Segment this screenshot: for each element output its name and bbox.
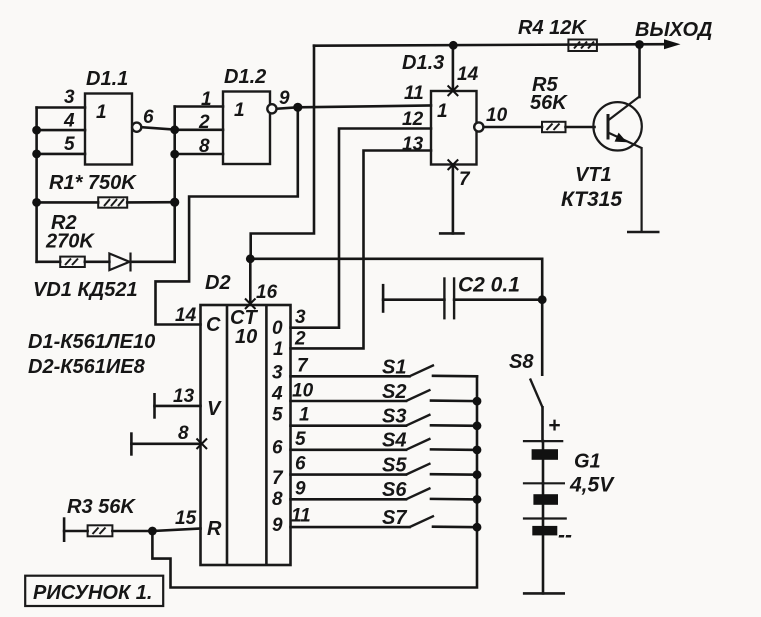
wire C2 left stub <box>383 298 444 301</box>
svg-text:1: 1 <box>273 339 284 360</box>
wire top supply rail to output <box>314 44 666 46</box>
wire VT1 collector to output rail <box>638 45 641 98</box>
node V pin open terminal bar <box>153 394 156 417</box>
svg-text:S2: S2 <box>382 381 406 403</box>
wire vertical from top rail down at x=314 <box>251 46 314 259</box>
svg-text:S5: S5 <box>382 455 407 477</box>
resistor R3 <box>88 525 113 536</box>
junction output rail / pin14 <box>449 41 458 50</box>
battery G1 plate 2 <box>523 482 565 484</box>
svg-text:14: 14 <box>175 305 197 326</box>
svg-text:1: 1 <box>437 101 448 122</box>
node C2 left open terminal bar <box>382 285 385 311</box>
svg-text:4: 4 <box>63 111 75 132</box>
svg-text:1: 1 <box>299 405 310 426</box>
pin 8 entry mark D2 <box>197 439 208 450</box>
junction R pin / R3 <box>148 527 157 536</box>
junction output rail / collector <box>635 40 644 49</box>
svg-text:10: 10 <box>486 105 508 126</box>
svg-text:2: 2 <box>294 329 306 350</box>
svg-text:D1.1: D1.1 <box>86 68 128 90</box>
wire counter out 9 row to S7 <box>291 526 410 529</box>
svg-text:КТ315: КТ315 <box>561 188 622 211</box>
junction D1.1 pin5 <box>32 150 41 159</box>
battery G1 bar 3 <box>532 526 557 536</box>
svg-text:6: 6 <box>295 454 306 475</box>
counter D2 box <box>201 305 291 565</box>
wire pin9 node down to D2 clock (staircase) <box>156 107 298 324</box>
svg-text:R3 56K: R3 56K <box>67 496 136 518</box>
svg-text:D2: D2 <box>205 272 231 294</box>
wire D1.1 inputs left bus <box>35 108 38 262</box>
svg-text:D2-К561ИЕ8: D2-К561ИЕ8 <box>28 356 146 378</box>
diode VD1 <box>109 253 130 272</box>
wire counter out 3 row to S1 <box>291 375 410 378</box>
wire D1.1 pin 5 <box>37 153 85 156</box>
resistor R5 <box>542 122 566 132</box>
svg-text:3: 3 <box>272 363 283 384</box>
svg-text:R1* 750K: R1* 750K <box>49 172 137 194</box>
svg-text:9: 9 <box>295 479 306 500</box>
svg-text:S1: S1 <box>382 357 406 379</box>
wire D1.3 pin 12 from counter out 0 <box>291 129 432 328</box>
junction bus S5 <box>473 470 482 479</box>
wire supply vertical to S8 <box>541 259 544 375</box>
pin 7 entry mark D1.3 <box>448 160 459 171</box>
svg-text:56K: 56K <box>530 92 568 114</box>
switch S2 lever <box>406 390 431 401</box>
svg-text:S3: S3 <box>382 406 406 428</box>
svg-text:6: 6 <box>143 107 154 128</box>
svg-text:5: 5 <box>64 134 75 155</box>
wire C2 right to supply vertical <box>454 298 542 301</box>
svg-text:7: 7 <box>297 356 309 377</box>
wire R1 row <box>37 201 99 204</box>
wire D1.3 output pin 10 to R5 <box>483 126 542 129</box>
wire D1.2 pin 1 <box>175 105 223 108</box>
wire D1.1 output to D1.2 inputs <box>141 127 175 129</box>
wire D1.3 pin 13 from counter out 1 <box>291 151 432 349</box>
wire D2 pin 8 <box>131 442 200 445</box>
wire S4 fixed side <box>431 448 477 451</box>
switch S4 lever <box>406 439 431 450</box>
battery G1 plate + <box>523 440 563 442</box>
svg-text:V: V <box>207 398 222 420</box>
figure caption box <box>25 576 163 606</box>
wire counter out 6 row to S4 <box>291 448 407 451</box>
svg-text:S6: S6 <box>382 479 407 501</box>
svg-text:14: 14 <box>457 64 479 85</box>
junction bus S2 <box>473 397 482 406</box>
wire S5 fixed side <box>431 473 477 476</box>
battery G1 bar 1 <box>532 449 558 460</box>
wire counter out 5 row to S3 <box>291 424 407 427</box>
wire pin9 junction to D1.3 pin 11 <box>298 106 431 108</box>
wire S7 fixed side <box>433 525 477 528</box>
svg-text:7: 7 <box>459 169 471 190</box>
junction bus S3 <box>473 421 482 430</box>
wire S6 fixed side <box>431 498 477 501</box>
resistor R2 <box>60 257 85 267</box>
battery G1 bar 2 <box>533 494 558 505</box>
wire supply down to D2 pin 16 <box>249 259 252 304</box>
svg-text:S4: S4 <box>382 430 406 452</box>
battery G1 plate 3 <box>523 517 567 519</box>
svg-text:C: C <box>206 314 221 336</box>
svg-text:8: 8 <box>178 423 189 444</box>
node pin 8 open terminal bar <box>130 434 133 455</box>
svg-text:9: 9 <box>272 515 283 536</box>
switch S6 lever <box>406 488 431 499</box>
svg-text:9: 9 <box>279 88 290 109</box>
wire S8 to battery plus <box>541 407 544 441</box>
gate D1.2 <box>223 92 277 165</box>
capacitor C2 <box>444 277 454 319</box>
svg-text:10: 10 <box>292 381 314 402</box>
wire battery internal link 4 <box>542 505 545 519</box>
svg-text:16: 16 <box>256 282 278 303</box>
wire D1.2 input bus vertical <box>173 107 176 262</box>
svg-text:C2 0.1: C2 0.1 <box>458 274 520 297</box>
ground VT1 emitter <box>627 231 660 234</box>
svg-text:ВЫХОД: ВЫХОД <box>635 19 712 41</box>
transistor VT1 <box>593 97 641 233</box>
svg-text:5: 5 <box>272 405 283 426</box>
wire R5 to VT1 base <box>566 126 595 129</box>
svg-text:R4 12K: R4 12K <box>518 17 587 39</box>
junction bus S7 <box>473 523 482 532</box>
pin 16 entry mark <box>245 299 256 310</box>
svg-text:270K: 270K <box>45 231 95 253</box>
svg-text:РИСУНОК 1.: РИСУНОК 1. <box>33 582 152 604</box>
junction supply rail / pin16 <box>246 254 255 263</box>
node pin 9 junction <box>293 103 302 112</box>
wire S3 fixed side <box>431 424 477 427</box>
svg-text:1: 1 <box>96 102 107 123</box>
wire D1.2 pin 8 <box>175 153 223 156</box>
svg-text:2: 2 <box>198 112 210 133</box>
svg-text:8: 8 <box>199 136 210 157</box>
junction C2 / S8 supply <box>538 295 547 304</box>
junction R1 left <box>32 198 41 207</box>
output arrowhead <box>664 39 681 49</box>
svg-text:13: 13 <box>173 386 195 407</box>
wire counter out 4 row to S2 <box>291 400 407 403</box>
svg-text:4,5V: 4,5V <box>569 474 615 497</box>
svg-text:13: 13 <box>402 134 424 155</box>
svg-text:S8: S8 <box>509 351 534 373</box>
junction R1 right <box>170 198 179 207</box>
switch S8 lever <box>530 379 543 408</box>
wire D1.1 pin 3 <box>37 106 85 109</box>
svg-text:D1.2: D1.2 <box>224 66 266 88</box>
svg-text:8: 8 <box>272 489 283 510</box>
junction bus S6 <box>473 495 482 504</box>
svg-text:4: 4 <box>271 384 283 405</box>
svg-text:VT1: VT1 <box>575 164 612 186</box>
junction D1.2 pin8 <box>170 150 179 159</box>
junction D1.1 pin4 <box>32 126 41 135</box>
wire D1.3 pin 14 supply drop <box>452 45 455 90</box>
svg-text:--: -- <box>558 524 572 547</box>
resistor R1 <box>98 197 127 207</box>
switch S1 lever <box>410 365 435 376</box>
svg-text:10: 10 <box>235 326 257 348</box>
svg-text:D1.3: D1.3 <box>402 52 444 74</box>
svg-text:+: + <box>548 414 560 437</box>
wire D1.2 pin 2 <box>175 129 223 132</box>
junction bus S4 <box>473 446 482 455</box>
svg-text:6: 6 <box>272 438 283 459</box>
node R3 left open terminal bar <box>63 519 66 541</box>
svg-text:12: 12 <box>402 109 424 130</box>
wire battery internal link 1 <box>542 441 545 449</box>
wire D1.1 pin 4 <box>37 129 85 132</box>
resistor R4 <box>568 40 597 52</box>
pin 14 entry mark D1.3 <box>448 86 459 97</box>
wire counter out 7 row to S5 <box>291 473 407 476</box>
svg-text:VD1 КД521: VD1 КД521 <box>33 279 138 301</box>
ground D1.3 pin 7 <box>439 232 465 235</box>
wire D1.2 pin 9 output <box>276 107 298 109</box>
wire D2 V pin 13 <box>155 405 201 408</box>
switch S7 lever <box>410 516 435 527</box>
wire counter out 8 row to S6 <box>291 498 407 501</box>
svg-text:R: R <box>207 518 222 540</box>
gate D1.3 <box>431 91 483 165</box>
junction D1.2 pin2 <box>170 125 179 134</box>
svg-text:5: 5 <box>295 429 306 450</box>
wire R3 row to R pin 15 <box>64 530 88 533</box>
svg-text:0: 0 <box>272 318 283 339</box>
wire battery internal link 2 <box>542 460 545 484</box>
switch S3 lever <box>406 414 431 425</box>
svg-text:G1: G1 <box>574 451 601 473</box>
svg-text:1: 1 <box>201 89 212 110</box>
battery bottom terminal <box>523 592 565 595</box>
svg-text:11: 11 <box>404 83 424 104</box>
wire S1 fixed side <box>433 374 477 377</box>
wire R2 / VD1 row <box>37 260 61 263</box>
svg-text:7: 7 <box>272 468 284 489</box>
wire R node down to bottom rail <box>152 376 477 587</box>
gate D1.1 <box>85 94 141 165</box>
svg-text:D1-К561ЛЕ10: D1-К561ЛЕ10 <box>28 331 155 353</box>
wire D1.3 pin 7 to ground <box>452 165 455 234</box>
wire battery internal link 5 <box>542 519 545 526</box>
svg-text:11: 11 <box>291 506 311 527</box>
svg-text:S7: S7 <box>382 507 407 529</box>
svg-text:1: 1 <box>234 100 245 121</box>
wire S2 fixed side <box>431 399 477 402</box>
svg-text:3: 3 <box>295 307 306 328</box>
wire supply rail horizontal y=258 <box>250 257 542 260</box>
switch S5 lever <box>406 463 431 474</box>
wire battery internal link 3 <box>542 483 545 494</box>
svg-text:3: 3 <box>64 87 75 108</box>
wire battery minus lead <box>542 535 545 593</box>
svg-text:15: 15 <box>175 508 197 529</box>
